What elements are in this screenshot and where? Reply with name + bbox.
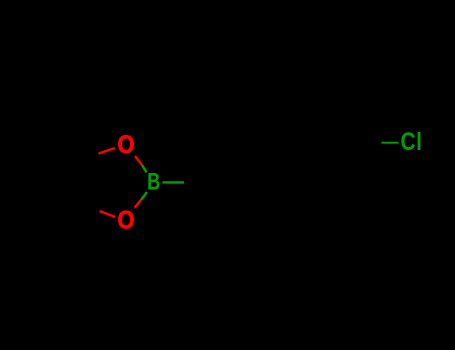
- bond C4-methyl: [30, 143, 70, 162]
- bond B-Ca green half: [163, 181, 185, 183]
- bond ring-Cl black half: [365, 141, 382, 144]
- svg-text:B: B: [147, 169, 160, 195]
- svg-text:Cl: Cl: [401, 127, 423, 155]
- bond O1-C4 red half: [99, 148, 116, 154]
- bond O3-C5 red half: [100, 211, 116, 217]
- wire: invisible black skeleton bonds (carbon framework): [30, 120, 382, 244]
- bond C5-methyl: [32, 202, 72, 221]
- bond B-Ca black half: [184, 181, 214, 184]
- benzene ring: [247, 130, 365, 170]
- bond Ca-Cb vinyl: [214, 157, 247, 183]
- bond O1-C4 black half: [70, 154, 99, 163]
- svg-text:O: O: [118, 206, 135, 234]
- bond C5-methyl2: [60, 202, 72, 244]
- bond O1-B green half: [142, 165, 147, 172]
- svg-text:O: O: [118, 131, 135, 159]
- bond B-O3 green half: [141, 192, 147, 200]
- bond O3-C5 black half: [72, 202, 100, 211]
- bond C4-methyl2: [58, 120, 70, 162]
- bond C4-C5 ring edge: [70, 162, 72, 201]
- bond C-Cl green half: [382, 142, 399, 144]
- bond B-O3 red half: [135, 200, 142, 208]
- bond O1-B red half: [135, 156, 142, 165]
